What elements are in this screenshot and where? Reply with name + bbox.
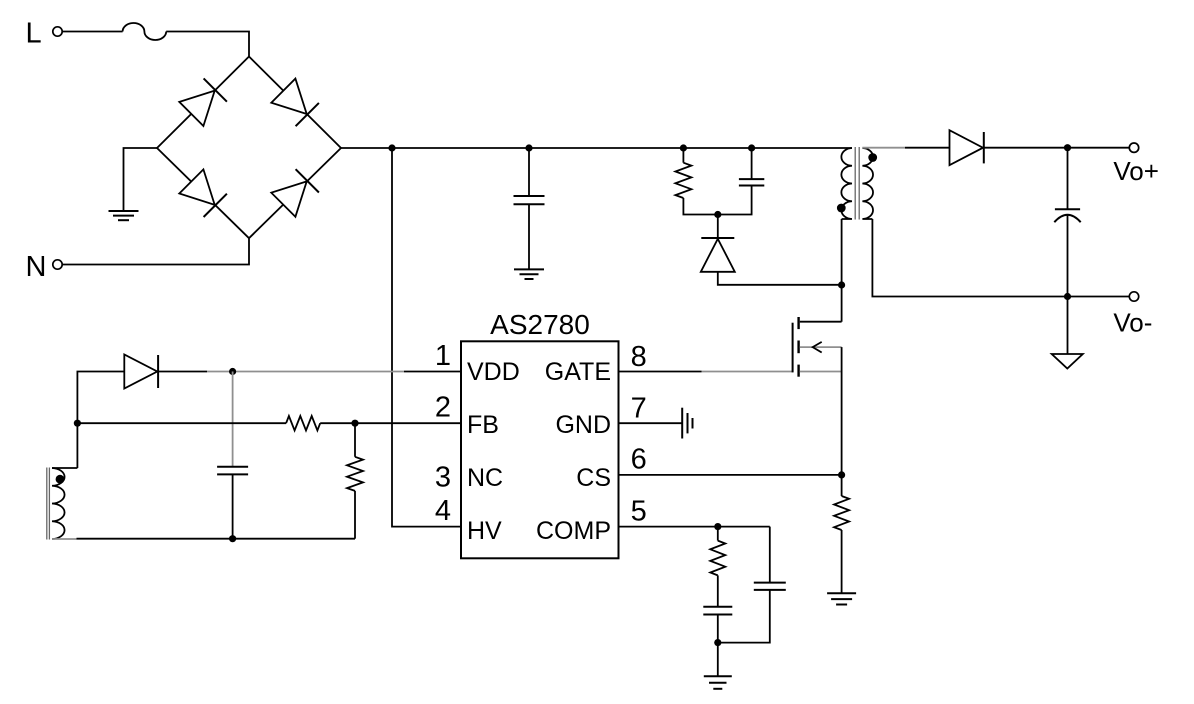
node drain junction [838,281,845,288]
wire [984,147,1129,149]
capacitor C4 [703,606,732,608]
resistor R1 [675,163,691,198]
wire [682,148,684,163]
svg-text:5: 5 [631,496,647,528]
wire [207,371,404,373]
wire Q1 source [800,371,842,373]
wire [751,148,753,179]
wire [683,198,717,215]
resistor R4 [710,541,725,576]
wire [841,530,843,593]
svg-text:6: 6 [631,443,647,475]
wire [528,204,530,269]
capacitor C3 [1055,208,1080,210]
svg-text:HV: HV [467,517,502,545]
wire [717,527,719,541]
svg-text:8: 8 [631,341,647,373]
wire [404,371,461,373]
transistor Q1 gate bar [792,323,794,373]
node CS junction [838,471,845,478]
ground [109,210,139,212]
svg-text:NC: NC [467,464,503,492]
svg-text:1: 1 [435,340,451,372]
wire [166,32,249,57]
wire [77,538,356,540]
diode D7 [124,355,157,389]
transistor Q1 body arrow [813,342,822,353]
fuse F1 [123,23,167,40]
wire [718,590,770,643]
svg-text:Vo-: Vo- [1113,308,1152,338]
wire [702,371,793,373]
wire aux return rail [52,538,77,540]
ground [681,408,683,439]
wire Q1 drain [800,285,842,322]
ground [1052,354,1083,369]
diode D4 [271,181,306,216]
wire Q1 body [800,346,842,348]
resistor R3 [834,496,849,530]
ground [704,675,732,677]
svg-text:Vo+: Vo+ [1113,156,1159,186]
svg-text:VDD: VDD [467,358,520,386]
wire HV bus [341,147,852,149]
diode D6 [950,130,984,165]
transformer T1 primary winding [841,148,852,219]
wire [717,615,719,643]
diode D5 [701,239,735,272]
wire VDD net [158,371,207,373]
wire [232,474,234,538]
wire bridge bottom-right edge [249,148,341,238]
terminal N [53,260,62,269]
diode D2 [271,79,306,114]
wire COMP net [619,526,770,528]
wire FB net [77,422,286,424]
wire [232,372,234,467]
wire [717,215,719,239]
node output return junction [1064,293,1071,300]
wire [354,423,356,457]
wire [124,148,158,211]
wire [62,238,249,264]
wire [841,475,843,496]
capacitor C1 [514,195,545,197]
node T1 primary polarity dot [837,204,846,213]
wire [841,219,843,285]
diode D3 [179,169,214,204]
transformer T1 secondary winding [862,148,873,219]
node bus-C1 junction [525,144,532,151]
node VDD junction [229,368,236,375]
wire [62,31,122,33]
svg-text:3: 3 [435,461,451,493]
svg-text:COMP: COMP [536,517,611,545]
capacitor C5 [754,582,786,584]
node COMP return junction [714,639,721,646]
svg-text:N: N [26,251,47,283]
wire [718,272,842,285]
svg-text:AS2780: AS2780 [490,309,590,340]
resistor R6 [347,457,363,491]
svg-text:2: 2 [435,392,451,424]
svg-text:7: 7 [631,393,647,425]
wire GND pin net [619,422,683,424]
ground [827,592,856,594]
capacitor C2 [739,178,764,180]
node T1 secondary polarity dot [868,153,877,162]
capacitor C6 [217,466,248,468]
node aux rail junction [229,535,236,542]
svg-text:L: L [26,18,42,50]
wire [862,147,905,149]
wire bridge bottom-left edge [157,148,249,238]
op-amp U1 AS2780 body [461,341,619,558]
wire [528,148,530,196]
svg-text:GND: GND [555,411,611,439]
svg-text:GATE: GATE [545,358,611,386]
wire [769,527,771,583]
node FB divider junction [351,420,358,427]
wire [354,491,356,539]
terminal Vo- [1129,292,1138,301]
transformer T1 core [854,147,856,220]
transformer T1 aux core [46,468,48,540]
svg-text:4: 4 [435,495,451,527]
terminal L [53,27,62,36]
wire [718,186,752,215]
wire [717,575,719,606]
svg-text:CS: CS [576,464,611,492]
wire [320,422,461,424]
node bus-C2 junction [748,144,755,151]
wire CS net [619,474,842,476]
wire [841,347,843,475]
node COMP junction [714,523,721,530]
diode D1 [179,91,214,126]
wire bridge top-left edge [157,57,249,149]
wire bridge top-right edge [249,57,341,149]
wire GATE net [619,371,702,373]
wire [1067,297,1069,354]
transformer T1 auxiliary winding [52,468,65,539]
node T1 aux polarity dot [56,475,65,484]
wire [872,219,1129,297]
wire [1067,215,1069,297]
wire [52,372,124,469]
wire [905,147,950,149]
wire [717,643,719,676]
node FB tap junction [74,420,81,427]
node bus-R1 junction [680,144,687,151]
ground [514,268,544,270]
node output junction [1064,144,1071,151]
node bus-HV junction [388,144,395,151]
terminal Vo+ [1129,143,1138,152]
node snubber junction [714,211,721,218]
wire [1067,148,1069,210]
svg-text:FB: FB [467,411,499,439]
resistor R5 [286,416,320,430]
transistor Q1 channel [797,317,799,329]
wire HV pin net [392,148,461,527]
